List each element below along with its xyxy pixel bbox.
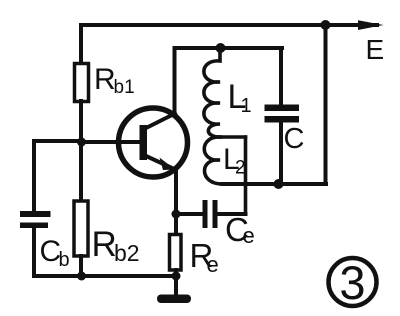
- transistor Q1 base bar: [140, 125, 148, 160]
- inductor L2: [204, 137, 222, 184]
- svg-text:2: 2: [235, 158, 246, 179]
- label Cb: [40, 235, 70, 271]
- label Rb2: [92, 225, 140, 266]
- wire emitter down: [174, 168, 178, 214]
- wire Cb top branch: [34, 141, 81, 211]
- wire bottom rail: [34, 274, 176, 278]
- wire supply rail top: [81, 23, 377, 27]
- node tank bottom junction: [274, 179, 284, 189]
- label Rb1: [94, 63, 135, 98]
- node base junction: [77, 138, 86, 147]
- svg-text:e: e: [243, 223, 255, 248]
- capacitor Ce: [203, 200, 218, 228]
- wire left rail middle segment: [79, 101, 83, 202]
- label Re: [190, 237, 219, 277]
- wire collector up: [173, 48, 177, 113]
- node junction top-right: [321, 20, 331, 30]
- ground: [157, 295, 191, 304]
- inductor L1: [204, 48, 220, 137]
- capacitor Cb: [20, 211, 51, 228]
- label Ce: [225, 211, 255, 248]
- wire tank bottom rail: [222, 182, 326, 186]
- wire left rail bottom segment: [79, 256, 83, 276]
- svg-text:R: R: [94, 63, 116, 96]
- wire collector to tank: [175, 46, 283, 50]
- wire tap line: [220, 135, 246, 139]
- transistor Q1 emitter stroke: [146, 156, 173, 169]
- wire right drop from supply to tank bottom: [324, 25, 328, 184]
- resistor Re: [170, 235, 182, 271]
- label L1: [228, 78, 252, 117]
- node emitter junction: [172, 210, 181, 219]
- wire emitter to Ce: [176, 212, 203, 216]
- resistor Rb2: [74, 201, 88, 256]
- wire left rail top segment: [79, 25, 83, 64]
- wire tap drop to Ce: [244, 137, 248, 214]
- capacitor C: [265, 105, 300, 123]
- transistor Q1 emitter arrow: [160, 158, 176, 171]
- wire Ce to tap: [218, 212, 246, 216]
- svg-text:b1: b1: [114, 77, 135, 98]
- svg-text:3: 3: [339, 256, 365, 309]
- wire Re bottom: [174, 270, 178, 276]
- wire emitter to Re: [174, 214, 178, 235]
- svg-text:C: C: [284, 123, 305, 155]
- figure circle 3: [329, 258, 377, 306]
- svg-text:1: 1: [241, 95, 252, 117]
- label L2: [223, 143, 246, 179]
- svg-text:b2: b2: [114, 240, 140, 266]
- node Re bottom junction: [172, 272, 181, 281]
- svg-text:e: e: [207, 252, 219, 277]
- svg-text:R: R: [92, 225, 117, 264]
- resistor Rb1: [75, 64, 89, 102]
- wire Cb bottom branch: [32, 228, 36, 276]
- wire ground stem: [174, 276, 178, 295]
- wire C bottom branch: [279, 123, 283, 185]
- transistor Q1 circle: [119, 108, 188, 177]
- node tank top junction: [216, 43, 226, 53]
- svg-text:b: b: [59, 249, 70, 271]
- svg-text:E: E: [366, 34, 385, 65]
- wire C top branch: [279, 48, 283, 105]
- transistor Q1 collector stroke: [146, 114, 175, 129]
- arrowhead supply E: [358, 20, 384, 30]
- node Rb2 bottom junction: [77, 272, 86, 281]
- wire base: [81, 140, 140, 144]
